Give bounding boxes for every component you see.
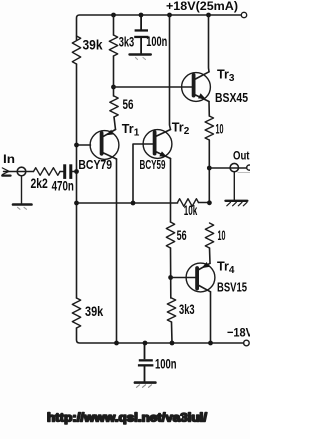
node junction output — [207, 166, 212, 171]
node junction rail/3k3 — [111, 13, 116, 18]
terminal Out edge circle — [247, 165, 252, 170]
node junction Tr1 base / left rail — [74, 143, 79, 148]
svg-text:39k: 39k — [83, 38, 103, 53]
wire feedback row y=203 — [77, 202, 178, 204]
node junction rail/Tr4 collector — [208, 341, 213, 346]
ground input — [13, 205, 32, 210]
svg-text:Tr3: Tr3 — [217, 68, 235, 85]
wire Tr1 base to left rail — [77, 144, 91, 146]
ground top decoupling — [130, 55, 151, 60]
resistor 3k3 lower — [167, 298, 175, 322]
svg-text:3k3: 3k3 — [119, 35, 135, 50]
terminal +18V (open circle) — [241, 12, 246, 17]
wire Tr2 collector to rail — [170, 15, 171, 130]
wire left rail upper (39k to Tr1 base node) — [76, 64, 78, 298]
wire Tr2 base L-drop — [133, 144, 153, 203]
ground output — [226, 201, 248, 206]
transistor Tr3 BSX45 (NPN) — [182, 72, 211, 102]
node junction rail/100n — [139, 13, 144, 18]
resistor 39k lower — [72, 298, 80, 328]
node junction 10k/output column — [207, 200, 212, 205]
artifact faint line — [238, 172, 250, 174]
wire 3k3 column top — [113, 15, 115, 35]
svg-text:56: 56 — [123, 97, 134, 112]
wire -18V bottom rail — [77, 328, 244, 343]
wire 10 to out node — [208, 140, 210, 203]
resistor 10 upper — [205, 116, 213, 140]
resistor 56 lower — [166, 222, 174, 248]
input connector ground stub — [2, 174, 10, 176]
wire input lead — [4, 171, 34, 173]
wire Tr1 collector down — [116, 159, 118, 343]
svg-text:http://www.qsl.net/va3iul/: http://www.qsl.net/va3iul/ — [47, 413, 208, 425]
wire Tr3 collector to rail — [208, 15, 211, 72]
terminal Out circle — [230, 163, 238, 171]
svg-text:Tr4: Tr4 — [217, 260, 235, 277]
wire 56 lower to Tr4 base node — [170, 248, 172, 298]
svg-text:10: 10 — [216, 121, 224, 136]
wire 56 to Tr1 emitter — [114, 117, 116, 130]
wire Tr2 emitter down — [170, 159, 172, 223]
wire 3k3 lower to bottom rail — [171, 322, 174, 343]
transistor Tr1 BCY79 (PNP) — [90, 130, 119, 160]
node junction 470n / left rail — [74, 169, 79, 174]
resistor 3k3 upper — [109, 35, 117, 56]
svg-text:100n: 100n — [146, 34, 167, 49]
wire 470n to left rail — [72, 171, 76, 173]
svg-text:10k: 10k — [184, 203, 198, 218]
resistor 56 upper — [110, 96, 118, 117]
node junction rail/Tr1 collector — [114, 341, 119, 346]
node junction feedback/left rail — [74, 201, 79, 206]
svg-text:In: In — [3, 152, 15, 166]
wire 10 lower to Tr4 emitter — [209, 248, 212, 263]
wire out node to Out terminal — [209, 167, 247, 169]
svg-text:Out: Out — [233, 149, 250, 163]
wire node A to Tr3 base — [114, 86, 194, 88]
svg-text:3k3: 3k3 — [179, 302, 195, 317]
capacitor 100n bottom (decoupling) — [138, 343, 154, 382]
resistor 10k feedback — [178, 199, 199, 207]
svg-text:470n: 470n — [52, 179, 74, 194]
svg-text:BCY59: BCY59 — [140, 157, 166, 172]
svg-text:+18V(25mA): +18V(25mA) — [166, 0, 238, 13]
svg-text:100n: 100n — [155, 357, 177, 372]
svg-text:2k2: 2k2 — [31, 176, 48, 191]
wire 10k to out column — [199, 202, 210, 204]
transistor Tr2 BCY59 (NPN) — [143, 130, 172, 159]
wire 3k3 to node A — [113, 56, 115, 96]
node junction A (3k3/56/Tr3 base) — [111, 85, 116, 90]
capacitor 470n (input coupling) — [63, 164, 72, 179]
terminal In circle — [17, 167, 26, 176]
wire Tr3 emitter to 10 — [208, 102, 210, 117]
resistor 39k upper bias — [72, 36, 80, 64]
node junction Tr4 base — [168, 275, 173, 280]
node junction Tr2 base drop — [131, 201, 136, 206]
resistor 10 lower — [205, 223, 213, 248]
wire +18V top rail — [77, 15, 242, 40]
wire Tr4 base — [171, 277, 196, 279]
node junction rail/Tr2 collector — [167, 13, 172, 18]
terminal -18V (open circle) — [244, 340, 250, 346]
wire In circle down to ground — [21, 176, 23, 203]
svg-text:BSV15: BSV15 — [217, 279, 247, 294]
wire 2k2 to 470n — [60, 171, 63, 173]
wire Out circle down to ground — [233, 172, 235, 200]
svg-text:Tr1: Tr1 — [122, 122, 140, 139]
svg-text:−18V: −18V — [227, 326, 250, 340]
svg-text:BSX45: BSX45 — [215, 90, 248, 105]
svg-text:39k: 39k — [85, 304, 104, 319]
node junction rail/100n bottom — [143, 341, 148, 346]
capacitor 100n top (decoupling) — [134, 15, 148, 54]
wire Tr4 collector down — [210, 292, 212, 343]
resistor 2k2 — [34, 168, 61, 176]
transistor Tr4 BSV15 (PNP) — [186, 262, 215, 292]
svg-text:10: 10 — [218, 228, 226, 243]
svg-text:56: 56 — [177, 228, 187, 243]
ground bottom decoupling — [135, 383, 156, 388]
node junction rail/3k3 lower — [170, 341, 175, 346]
svg-text:BCY79: BCY79 — [78, 157, 112, 172]
node junction rail/Tr3 collector — [206, 13, 211, 18]
svg-text:Tr2: Tr2 — [172, 121, 190, 138]
